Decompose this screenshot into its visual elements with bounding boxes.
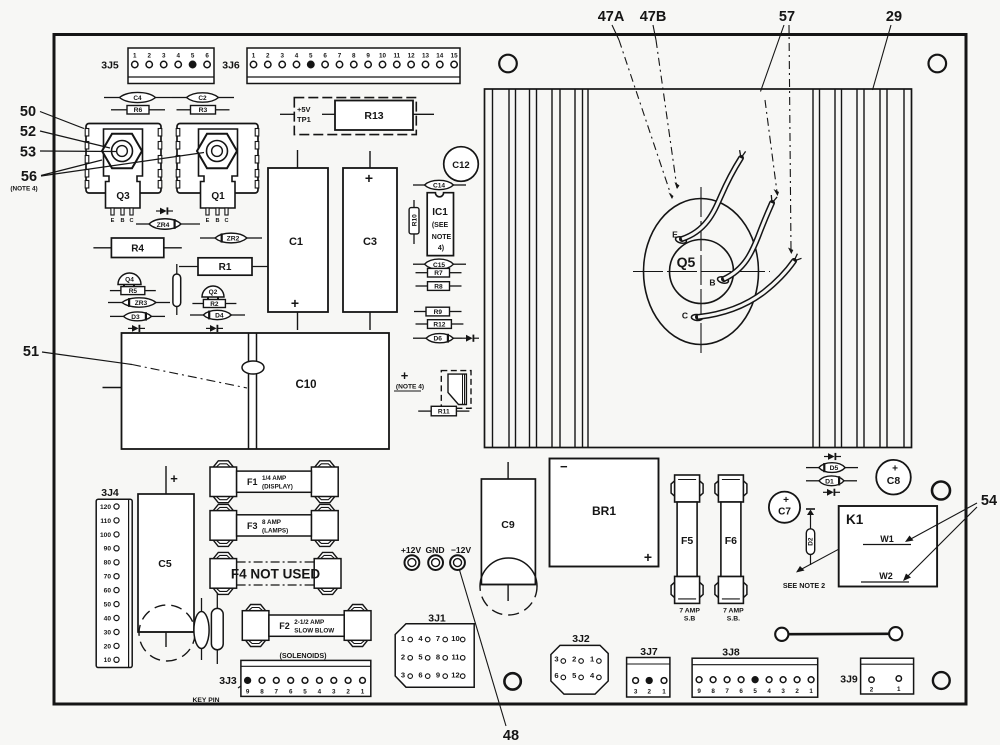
svg-text:110: 110 [100, 518, 111, 525]
svg-text:R10: R10 [412, 214, 419, 226]
fuse F2 2-1/2 AMP SLOW BLOW [242, 605, 371, 647]
svg-text:3J3: 3J3 [219, 675, 237, 687]
svg-text:Q1: Q1 [211, 191, 225, 202]
svg-text:(LAMPS): (LAMPS) [262, 527, 288, 534]
svg-text:D1: D1 [825, 478, 834, 485]
wire from Q5 collector [691, 254, 801, 321]
svg-text:(SOLENOIDS): (SOLENOIDS) [279, 651, 327, 660]
svg-text:C3: C3 [363, 236, 377, 248]
transistor Q2 [202, 286, 224, 300]
svg-text:W2: W2 [879, 571, 893, 581]
connector 3J1 [395, 613, 474, 688]
svg-text:6: 6 [323, 53, 327, 60]
svg-text:2: 2 [870, 687, 874, 694]
svg-text:C7: C7 [778, 507, 791, 518]
svg-text:Q2: Q2 [209, 289, 218, 296]
callout 51 [23, 344, 247, 388]
svg-text:3J2: 3J2 [572, 633, 590, 645]
svg-text:7: 7 [275, 688, 279, 695]
mounting hole top-right [929, 55, 947, 73]
svg-text:IC1: IC1 [432, 207, 448, 218]
heatsink outline [485, 89, 912, 448]
connector 3J6 [222, 48, 460, 84]
resistor R9 [414, 307, 462, 316]
svg-text:W1: W1 [880, 534, 894, 544]
resistor R7 [416, 268, 462, 277]
svg-text:80: 80 [104, 560, 112, 567]
svg-text:52: 52 [20, 124, 36, 140]
svg-text:R7: R7 [434, 270, 443, 277]
svg-text:1: 1 [897, 686, 901, 693]
svg-text:3: 3 [781, 688, 785, 695]
svg-text:8 AMP: 8 AMP [262, 519, 281, 526]
svg-text:C8: C8 [887, 475, 901, 487]
svg-text:50: 50 [104, 602, 112, 609]
connector 3J9 [840, 658, 913, 694]
svg-text:120: 120 [100, 504, 111, 511]
callout 52 [20, 124, 110, 148]
resistor R6 [111, 106, 165, 115]
capacitor (unlabeled capsule) [173, 264, 181, 315]
svg-text:57: 57 [779, 9, 795, 25]
svg-text:R8: R8 [434, 283, 443, 290]
svg-text:C10: C10 [295, 379, 316, 391]
note marker + (NOTE 4) right of C10 [394, 368, 424, 391]
svg-text:90: 90 [104, 546, 112, 553]
svg-text:60: 60 [104, 588, 112, 595]
capacitor C9 [480, 462, 537, 615]
svg-text:15: 15 [451, 53, 459, 60]
diode polarity arrow for ZR4 [156, 207, 173, 214]
svg-text:(DISPLAY): (DISPLAY) [262, 484, 293, 491]
transistor Q1 with heatsink [176, 124, 259, 225]
capacitor capsule next to C5 [211, 592, 223, 664]
svg-text:E: E [672, 230, 678, 240]
svg-text:14: 14 [436, 53, 444, 60]
svg-text:F3: F3 [247, 521, 258, 531]
svg-text:K1: K1 [846, 512, 864, 527]
svg-text:13: 13 [422, 53, 430, 60]
svg-text:10: 10 [379, 53, 387, 60]
svg-text:12: 12 [408, 53, 416, 60]
svg-text:C1: C1 [289, 236, 303, 248]
svg-text:10: 10 [104, 657, 112, 664]
svg-text:F5: F5 [681, 535, 693, 547]
svg-text:D2: D2 [808, 537, 815, 546]
bridge rectifier BR1 [550, 459, 659, 567]
note SEE NOTE 2 with arrow [783, 549, 839, 590]
svg-text:9: 9 [436, 671, 440, 680]
callout 48 [460, 570, 520, 744]
svg-text:+: + [170, 471, 178, 486]
svg-text:7: 7 [338, 53, 342, 60]
svg-text:56: 56 [21, 169, 37, 185]
svg-text:48: 48 [503, 728, 519, 744]
svg-text:NOTE: NOTE [432, 234, 452, 241]
svg-text:+5V: +5V [297, 105, 311, 114]
svg-text:3: 3 [162, 53, 166, 60]
capacitor C12 [444, 147, 479, 182]
diode D1 [806, 476, 857, 486]
fuse F3 8 AMP (LAMPS) [210, 504, 338, 546]
connector 3J5 [101, 48, 214, 84]
svg-text:8: 8 [352, 53, 356, 60]
svg-text:6: 6 [289, 688, 293, 695]
svg-text:D4: D4 [215, 313, 224, 320]
svg-text:F2: F2 [279, 621, 290, 631]
svg-text:5: 5 [191, 53, 195, 60]
svg-text:3J4: 3J4 [101, 487, 119, 499]
svg-text:11: 11 [451, 652, 460, 661]
resistor R2 [192, 300, 236, 308]
svg-text:E: E [206, 218, 210, 224]
svg-text:2: 2 [795, 688, 799, 695]
svg-text:2: 2 [647, 689, 651, 696]
svg-text:−: − [560, 459, 568, 474]
svg-text:6: 6 [554, 671, 558, 680]
svg-text:R13: R13 [364, 110, 383, 122]
fuse F5 7 AMP S.B [671, 475, 703, 623]
svg-text:7 AMP: 7 AMP [679, 608, 700, 615]
svg-text:C5: C5 [158, 558, 172, 570]
svg-text:7: 7 [436, 634, 440, 643]
wire from Q5 emitter [675, 150, 746, 244]
svg-text:3: 3 [280, 53, 284, 60]
mounting hole top-left [499, 55, 517, 73]
capacitor C5 [138, 466, 195, 661]
wire from Q5 base [717, 195, 777, 284]
connector 3J3 [219, 660, 371, 696]
svg-text:ZR4: ZR4 [157, 222, 170, 229]
svg-text:1/4 AMP: 1/4 AMP [262, 475, 286, 482]
resistor R8 [416, 282, 462, 291]
svg-text:3J6: 3J6 [222, 60, 240, 72]
svg-text:R12: R12 [433, 321, 445, 328]
svg-text:3J9: 3J9 [840, 674, 858, 686]
svg-text:S.B: S.B [684, 616, 695, 623]
svg-text:12: 12 [451, 671, 459, 680]
svg-text:4: 4 [176, 53, 180, 60]
diode polarity arrow below D4 [206, 325, 223, 332]
capacitor C15 [413, 259, 466, 269]
svg-text:6: 6 [418, 671, 422, 680]
svg-text:B: B [215, 218, 219, 224]
transistor Q3 with heatsink [85, 124, 162, 225]
svg-text:3J8: 3J8 [722, 647, 740, 659]
svg-text:F6: F6 [725, 535, 737, 547]
svg-text:R3: R3 [199, 107, 208, 114]
svg-text:3J5: 3J5 [101, 60, 119, 72]
mounting hole bottom-center [504, 673, 520, 689]
svg-text:1: 1 [133, 53, 137, 60]
svg-text:2: 2 [346, 688, 350, 695]
resistor R4 [93, 238, 181, 258]
svg-text:+: + [291, 295, 299, 311]
heatsink left fins [493, 89, 589, 448]
capacitor C1 [268, 150, 328, 330]
svg-text:F4 NOT USED: F4 NOT USED [231, 567, 321, 582]
svg-text:−12V: −12V [451, 545, 472, 555]
svg-text:54: 54 [981, 493, 997, 509]
resistor R3 [177, 106, 230, 115]
svg-text:3: 3 [401, 671, 405, 680]
capacitor C14 [413, 180, 466, 189]
svg-text:+: + [892, 464, 898, 475]
capacitor C4 [104, 92, 172, 102]
svg-text:2: 2 [401, 652, 405, 661]
svg-text:+: + [401, 368, 409, 383]
transistor Q5 (TO-3 on heatsink) [644, 199, 759, 345]
svg-text:C12: C12 [452, 160, 469, 171]
svg-text:9: 9 [246, 688, 250, 695]
svg-text:D6: D6 [433, 336, 442, 343]
svg-text:10: 10 [451, 634, 459, 643]
resistor R11 [418, 406, 469, 416]
svg-text:1: 1 [809, 688, 813, 695]
relay K1 [839, 506, 937, 587]
svg-text:(SEE: (SEE [432, 222, 449, 229]
svg-text:S.B.: S.B. [727, 616, 740, 623]
svg-text:R9: R9 [434, 309, 443, 316]
connector 3J2 [551, 633, 608, 694]
svg-text:(NOTE 4): (NOTE 4) [10, 186, 37, 193]
svg-text:8: 8 [260, 688, 264, 695]
svg-text:TP1: TP1 [297, 115, 311, 124]
svg-text:ZR3: ZR3 [135, 300, 148, 307]
diode D5 [806, 463, 858, 473]
fuse F4 NOT USED [210, 552, 341, 594]
callout 56 (NOTE 4) [10, 153, 204, 193]
callout 53 [20, 145, 116, 161]
svg-text:4: 4 [767, 688, 771, 695]
callout 47A [598, 9, 674, 199]
callout 29 [873, 9, 903, 90]
heatsink right fins [813, 89, 904, 448]
svg-text:4): 4) [438, 245, 444, 252]
zener diode ZR3 [108, 298, 170, 307]
resistor R1 [179, 258, 271, 275]
diode polarity arrow below D3 [128, 325, 145, 332]
svg-text:7: 7 [725, 688, 729, 695]
connector 3J4 [96, 487, 132, 668]
svg-text:C4: C4 [133, 95, 142, 102]
integrated circuit IC1 [427, 193, 453, 256]
svg-text:3J7: 3J7 [640, 646, 658, 658]
svg-text:D3: D3 [131, 314, 140, 321]
svg-text:R4: R4 [131, 243, 144, 254]
svg-text:3: 3 [634, 689, 638, 696]
diode polarity arrow above D5 [824, 453, 841, 460]
svg-text:C14: C14 [433, 183, 445, 190]
svg-text:+: + [365, 170, 373, 186]
svg-text:R2: R2 [210, 301, 219, 308]
svg-text:40: 40 [104, 615, 112, 622]
callout 50 [20, 104, 84, 129]
mounting hole right-middle [932, 482, 950, 500]
svg-text:5: 5 [753, 688, 757, 695]
svg-text:2-1/2 AMP: 2-1/2 AMP [294, 619, 324, 626]
svg-text:5: 5 [303, 688, 307, 695]
diode polarity arrow right of D6 [462, 335, 479, 342]
connector 3J7 [627, 646, 670, 697]
svg-text:D5: D5 [830, 465, 839, 472]
svg-text:50: 50 [20, 104, 36, 120]
svg-text:20: 20 [104, 643, 112, 650]
resistor R13 [322, 101, 434, 131]
svg-text:+: + [783, 495, 789, 506]
svg-text:7 AMP: 7 AMP [723, 608, 744, 615]
svg-text:R11: R11 [438, 408, 450, 415]
transistor Q4 [118, 273, 141, 287]
capacitor C10 [103, 333, 390, 449]
svg-text:3J1: 3J1 [428, 613, 446, 625]
diode D3 [110, 312, 165, 321]
svg-text:Q3: Q3 [116, 191, 130, 202]
svg-text:47B: 47B [640, 9, 667, 25]
svg-text:+12V: +12V [401, 545, 422, 555]
capacitor C8 [876, 460, 911, 495]
svg-text:6: 6 [739, 688, 743, 695]
svg-text:8: 8 [711, 688, 715, 695]
callout 57 [761, 9, 796, 254]
svg-text:R5: R5 [129, 288, 138, 295]
svg-text:C: C [224, 218, 228, 224]
svg-text:47A: 47A [598, 9, 625, 25]
svg-text:B: B [120, 218, 124, 224]
zener diode ZR2 [200, 233, 262, 243]
svg-text:C2: C2 [198, 95, 207, 102]
test point TP1 +5V dashed outline [280, 98, 416, 135]
callout 47B [640, 9, 680, 189]
mounting hole bottom-right [933, 672, 950, 689]
svg-text:ZR2: ZR2 [227, 236, 240, 243]
svg-text:Q5: Q5 [677, 254, 696, 270]
svg-text:30: 30 [104, 629, 112, 636]
svg-text:4: 4 [295, 53, 299, 60]
svg-text:1: 1 [361, 688, 365, 695]
svg-text:E: E [111, 218, 115, 224]
zener diode ZR4 [136, 219, 200, 230]
diode D2 [806, 509, 815, 565]
svg-text:C: C [682, 311, 688, 321]
svg-text:1: 1 [252, 53, 256, 60]
diode D4 [190, 310, 245, 319]
svg-text:100: 100 [100, 532, 111, 539]
capacitor C3 [343, 151, 397, 330]
capacitor C7 [769, 492, 800, 523]
svg-text:53: 53 [20, 145, 36, 161]
diode D6 [413, 334, 462, 343]
svg-text:3: 3 [554, 655, 558, 664]
svg-text:R6: R6 [134, 107, 143, 114]
svg-text:2: 2 [147, 53, 151, 60]
svg-text:BR1: BR1 [592, 504, 616, 518]
callout 54 [903, 493, 997, 581]
fuse F6 7 AMP S.B. [715, 475, 747, 623]
svg-text:R1: R1 [219, 262, 232, 273]
svg-text:2: 2 [266, 53, 270, 60]
svg-text:(NOTE 4): (NOTE 4) [396, 384, 424, 391]
transistor Q5 crosshair [633, 187, 770, 356]
diode polarity arrow below D1 [823, 489, 840, 496]
svg-text:+: + [644, 549, 652, 565]
jumper wire W-shaped with eyelets [775, 627, 902, 641]
capacitor (small ellipse) next to C5 [194, 598, 209, 660]
svg-text:9: 9 [366, 53, 370, 60]
svg-text:Q4: Q4 [125, 277, 134, 284]
svg-text:6: 6 [205, 53, 209, 60]
svg-text:2: 2 [572, 655, 576, 664]
svg-text:3: 3 [332, 688, 336, 695]
svg-text:1: 1 [662, 689, 666, 696]
test points +12V GND -12V [401, 545, 472, 570]
svg-text:5: 5 [309, 53, 313, 60]
svg-text:4: 4 [318, 688, 322, 695]
svg-text:11: 11 [393, 53, 400, 60]
svg-text:GND: GND [425, 545, 444, 555]
svg-text:F1: F1 [247, 477, 258, 487]
insulator (dashed outline) for R11 [441, 371, 471, 409]
svg-text:SEE NOTE 2: SEE NOTE 2 [783, 581, 825, 590]
resistor R12 [416, 320, 464, 329]
svg-text:8: 8 [436, 652, 440, 661]
svg-text:70: 70 [104, 574, 112, 581]
svg-text:B: B [709, 278, 715, 288]
svg-text:C: C [129, 218, 133, 224]
svg-text:KEY PIN: KEY PIN [192, 697, 219, 704]
svg-text:C9: C9 [501, 519, 515, 531]
svg-text:29: 29 [886, 9, 902, 25]
resistor R10 [409, 200, 419, 244]
svg-text:51: 51 [23, 344, 39, 360]
connector 3J8 [692, 647, 818, 698]
resistor R5 [110, 287, 156, 295]
fuse F1 1/4 AMP (DISPLAY) [210, 461, 338, 503]
svg-text:SLOW BLOW: SLOW BLOW [294, 628, 334, 635]
capacitor C2 [172, 93, 234, 102]
svg-text:9: 9 [697, 688, 701, 695]
